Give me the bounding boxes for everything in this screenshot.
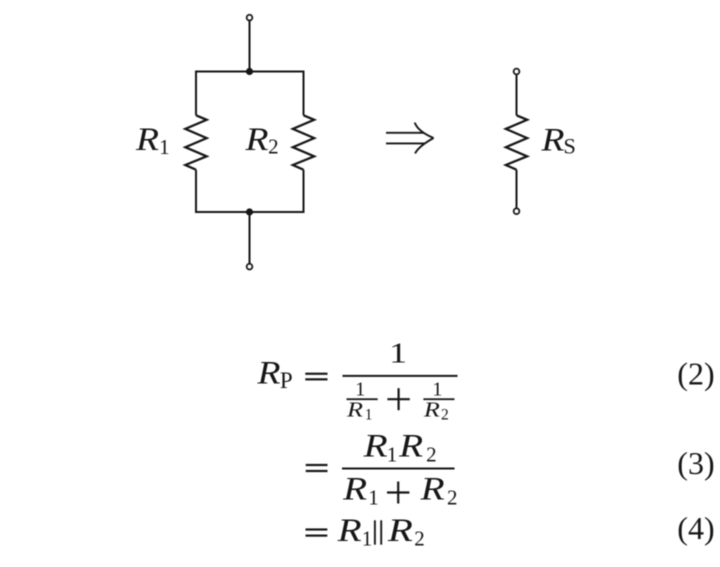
svg-text:2: 2 <box>414 527 425 551</box>
svg-text:2: 2 <box>447 485 458 509</box>
top terminal <box>247 15 253 21</box>
svg-text:(3): (3) <box>677 445 714 481</box>
wire bottom rail and branch leads <box>196 170 304 212</box>
svg-text:(2): (2) <box>677 355 714 391</box>
node top junction <box>246 68 253 75</box>
wire top rail and branch leads <box>196 72 304 116</box>
wire RS top lead <box>516 74 518 115</box>
terminal RS top <box>514 69 520 75</box>
label RS <box>540 122 576 158</box>
resistor R2 <box>293 115 314 169</box>
svg-text:R: R <box>423 398 440 422</box>
label R2 <box>244 122 278 159</box>
svg-text:R: R <box>362 429 387 465</box>
svg-text:R: R <box>420 471 445 507</box>
svg-text:R: R <box>256 356 280 392</box>
equals sign eq2 <box>305 373 327 375</box>
svg-text:1: 1 <box>159 135 170 159</box>
svg-text:2: 2 <box>268 135 279 159</box>
equation 4: = R1 parallel R2 <box>306 510 715 550</box>
svg-text:1: 1 <box>365 407 373 424</box>
svg-text:R: R <box>342 471 367 507</box>
wire top lead <box>249 20 251 71</box>
svg-text:1: 1 <box>389 337 407 369</box>
equation 2: RP = 1/(1/R1+1/R2) <box>256 337 714 423</box>
equals sign eq3 <box>306 464 328 466</box>
svg-text:S: S <box>563 134 576 159</box>
svg-text:2: 2 <box>426 442 437 466</box>
fraction bar main <box>343 375 458 377</box>
svg-text:R: R <box>244 122 268 158</box>
svg-text:1: 1 <box>362 527 373 551</box>
arrow implies <box>386 123 434 154</box>
resistor RS <box>506 115 527 169</box>
svg-text:1: 1 <box>368 485 379 509</box>
wire bottom lead <box>249 212 251 264</box>
parallel operator <box>375 520 381 544</box>
label R1 <box>135 122 170 159</box>
wire RS bottom lead <box>516 170 518 209</box>
bottom terminal <box>247 264 253 270</box>
svg-text:1: 1 <box>387 442 398 466</box>
resistor R1 <box>185 115 206 169</box>
plus sign eq3 <box>387 482 409 504</box>
svg-text:P: P <box>280 368 293 393</box>
fraction bar eq3 <box>342 468 455 470</box>
svg-text:(4): (4) <box>677 510 714 546</box>
plus sign eq2 <box>387 388 409 410</box>
svg-text:R: R <box>398 429 423 465</box>
svg-text:R: R <box>336 513 361 549</box>
node bottom junction <box>246 208 253 215</box>
terminal RS bottom <box>514 208 520 214</box>
equals sign eq4 <box>306 528 328 530</box>
svg-text:2: 2 <box>441 407 449 424</box>
svg-text:R: R <box>135 122 159 158</box>
equation 3: = R1R2/(R1+R2) <box>306 429 715 510</box>
svg-text:R: R <box>346 398 363 422</box>
svg-text:R: R <box>540 122 564 158</box>
svg-text:R: R <box>387 513 413 549</box>
